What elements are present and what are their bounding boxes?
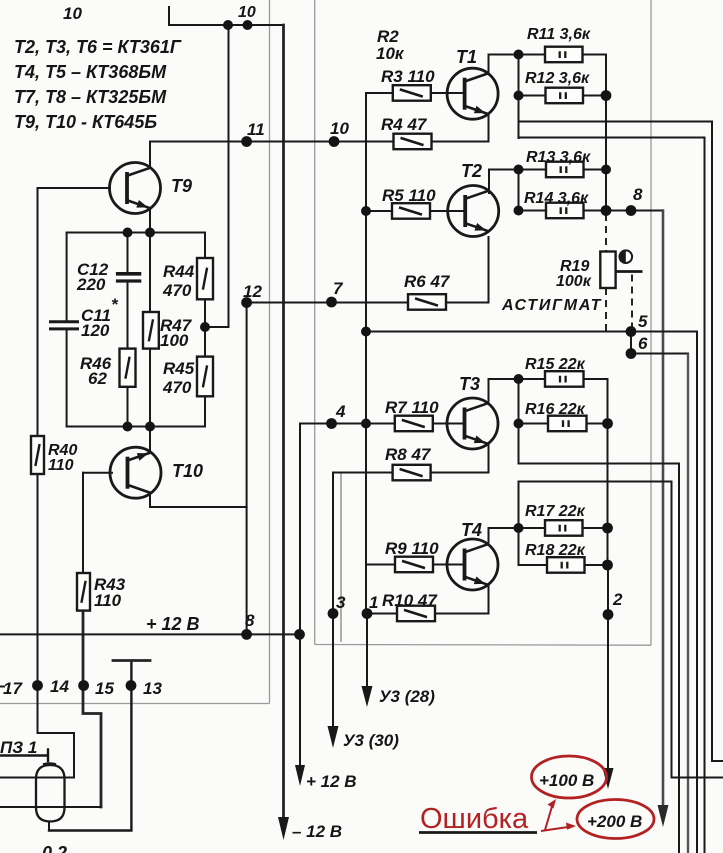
wire R13-R14 left join <box>518 170 520 211</box>
transistor T1 <box>447 68 498 119</box>
arrow +200V <box>658 805 669 827</box>
svg-text:R4 47: R4 47 <box>381 115 428 134</box>
svg-text:R45: R45 <box>163 359 195 378</box>
svg-text:1: 1 <box>369 593 378 612</box>
transistor T4 <box>447 539 498 590</box>
node 2 dot <box>603 609 614 620</box>
node 3 dot <box>328 608 339 619</box>
node 10 top dot <box>243 20 253 30</box>
junction R17 left <box>514 523 524 533</box>
junction R15 left <box>514 374 524 384</box>
wire R8 row <box>333 472 489 474</box>
wire T2 base row R5 <box>366 210 465 212</box>
junction R18 right <box>602 560 613 571</box>
wire R8 corner to node3 / UZ30 <box>332 473 334 728</box>
node 8 dot <box>626 205 637 216</box>
resistor R12 <box>546 88 584 104</box>
svg-text:12: 12 <box>243 282 262 301</box>
junction R12 left <box>514 91 524 101</box>
wire R16 row <box>519 423 608 425</box>
wire R17-R18 left join <box>518 482 520 566</box>
wire R47 column <box>149 233 151 427</box>
resistor R46 <box>120 349 136 387</box>
junction R14 right <box>601 205 612 216</box>
wire column node12 to rail <box>246 303 248 634</box>
resistor R7 <box>395 416 433 432</box>
node 4 dot <box>326 418 337 429</box>
resistor R44 <box>197 258 213 299</box>
wire output bus B <box>519 138 705 853</box>
svg-text:17: 17 <box>3 679 23 698</box>
svg-text:120: 120 <box>81 321 110 340</box>
svg-text:R9 110: R9 110 <box>385 539 439 558</box>
svg-text:ПЗ 1: ПЗ 1 <box>0 738 37 757</box>
partial plus mark before 17 <box>0 686 4 688</box>
junction rail-R47 <box>145 228 155 238</box>
node 14 dot <box>78 680 89 691</box>
svg-text:Т3: Т3 <box>459 374 480 394</box>
resistor R45 <box>197 357 213 397</box>
svg-text:15: 15 <box>95 679 114 698</box>
wire R13 row <box>489 169 606 171</box>
svg-text:110: 110 <box>94 591 122 610</box>
node 10 dot <box>329 136 340 147</box>
svg-text:10: 10 <box>63 4 82 23</box>
transistor T2 <box>448 186 499 237</box>
resistor R15 <box>545 371 584 387</box>
resistor R13 <box>546 162 584 178</box>
wire C12 R46 column <box>127 233 129 427</box>
svg-text:R5 110: R5 110 <box>382 186 436 205</box>
wire left block top rail <box>67 232 205 234</box>
wire node 5 line <box>366 331 697 333</box>
wire node 7 line <box>247 302 488 304</box>
svg-text:5: 5 <box>638 312 648 331</box>
resistor R40 <box>31 436 44 474</box>
junction R12 right <box>601 90 612 101</box>
resistor R3 <box>393 85 431 101</box>
wire node17 jog <box>38 733 75 778</box>
svg-text:Т2, Т3, Т6 = КТ361Г: Т2, Т3, Т6 = КТ361Г <box>14 37 182 57</box>
wire T2 collector riser <box>488 170 490 194</box>
frame of middle block right edge <box>650 0 652 645</box>
wire R3 feed vertical <box>365 93 367 614</box>
node 7 dot <box>326 297 337 308</box>
wire R18 row <box>519 564 608 566</box>
wire node 4 line / T3 base row <box>300 423 465 425</box>
underline of Oshibka <box>419 831 537 834</box>
svg-text:R6 47: R6 47 <box>404 272 451 291</box>
wire +12V branch vertical <box>299 424 301 767</box>
resistor R16 <box>548 416 587 432</box>
svg-text:8: 8 <box>245 611 255 630</box>
quartz crystal PZ capsule <box>36 764 65 822</box>
svg-text:6: 6 <box>638 334 648 353</box>
junction R44-R45 <box>200 322 210 332</box>
arrow +12V <box>295 765 305 786</box>
wire R11-R12 left join <box>518 55 520 139</box>
resistor R11 <box>545 47 583 63</box>
resistor R43 <box>77 573 90 611</box>
resistor R5 <box>392 203 430 219</box>
svg-text:100к: 100к <box>556 273 592 290</box>
red ellipse around +200V <box>577 800 654 839</box>
svg-text:3: 3 <box>336 593 346 612</box>
arrow UZ28 <box>362 686 373 707</box>
svg-text:0,2: 0,2 <box>42 843 67 853</box>
wire -12V bus vertical <box>282 25 285 816</box>
wire left block bottom rail <box>67 426 205 428</box>
junction R16 left <box>514 419 524 429</box>
svg-text:Т1: Т1 <box>456 47 477 67</box>
svg-text:470: 470 <box>162 378 192 397</box>
chassis bar node 13 <box>113 659 150 662</box>
wire UZ28 drop <box>366 614 368 689</box>
resistor R8 <box>393 465 431 481</box>
wire output bus A <box>519 122 723 762</box>
svg-text:R7 110: R7 110 <box>385 398 439 417</box>
junction rail-C12 <box>123 228 133 238</box>
resistor R4 <box>394 134 432 150</box>
wire T9 emitter drop <box>149 208 151 233</box>
wire R15-R18 right join <box>607 379 609 565</box>
wire R14 row / node 8 line <box>519 210 664 212</box>
svg-text:Т7, Т8 – КТ325БМ: Т7, Т8 – КТ325БМ <box>14 87 167 107</box>
wire T10 emitter riser <box>149 427 151 453</box>
scan table border bottom left <box>0 703 270 705</box>
node 6 dot <box>626 348 637 359</box>
svg-text:R18 22к: R18 22к <box>525 542 586 559</box>
svg-text:+ 12 В: + 12 В <box>306 772 357 791</box>
wire R43 column lower thick <box>83 611 101 807</box>
wire R11-R14 right join <box>605 55 607 211</box>
junction R16 right <box>602 418 613 429</box>
capacitor C11 <box>49 322 79 329</box>
node 12 dot <box>241 297 252 308</box>
potentiometer R19 <box>600 214 642 332</box>
wire T4 collector riser <box>488 528 490 545</box>
wire T4 collector to R17 <box>489 527 519 529</box>
wire T1 collector to R11 <box>489 54 519 56</box>
resistor R47 <box>143 312 159 349</box>
wire node2 vertical <box>607 565 609 770</box>
svg-text:Т4: Т4 <box>461 520 482 540</box>
svg-text:R10 47: R10 47 <box>382 591 438 610</box>
svg-text:62: 62 <box>88 369 107 388</box>
junction node4 right <box>361 419 371 429</box>
wire T1 collector riser <box>488 55 490 74</box>
adjuster symbol of R19 <box>620 250 633 263</box>
svg-text:У3 (30): У3 (30) <box>343 731 399 750</box>
transistor T10 arrow on upper emitter <box>110 447 161 498</box>
junction rail node 8 <box>241 629 252 640</box>
transistor T3 <box>447 398 498 449</box>
resistor R14 <box>546 203 584 219</box>
wire node10 branch down to R47 node <box>205 25 229 327</box>
wire R10 row node1 <box>367 613 489 615</box>
resistor R18 <box>547 557 585 573</box>
junction R13 right <box>601 165 611 175</box>
junction bottomrail-R47 <box>145 422 155 432</box>
svg-text:8: 8 <box>633 185 643 204</box>
wire output loop C <box>519 464 680 853</box>
svg-text:Т9, Т10 - КТ645Б: Т9, Т10 - КТ645Б <box>14 112 157 132</box>
svg-text:R11 3,6к: R11 3,6к <box>527 26 591 43</box>
junction node5 left <box>361 327 371 337</box>
svg-text:220: 220 <box>76 275 106 294</box>
svg-text:10: 10 <box>330 119 349 138</box>
wire T2 emitter drop <box>488 237 490 303</box>
svg-text:+200 В: +200 В <box>587 812 642 831</box>
svg-text:7: 7 <box>333 279 344 298</box>
wire node5-node6 link <box>630 332 632 354</box>
svg-text:470: 470 <box>162 281 192 300</box>
junction T2 base <box>361 206 371 216</box>
resistor R10 <box>397 606 435 622</box>
svg-text:+ 12 В: + 12 В <box>146 614 200 634</box>
wire node13 loop <box>49 661 131 831</box>
svg-text:R16 22к: R16 22к <box>525 401 586 418</box>
node 13 dot <box>126 680 137 691</box>
wire R40 column <box>37 188 39 733</box>
wire T3 emitter drop <box>488 444 490 473</box>
wire T4 emitter drop <box>488 585 490 614</box>
wire R12 row <box>519 95 607 97</box>
red arrow to +100V <box>545 799 556 830</box>
wire node 11 line <box>150 141 488 143</box>
thin inner frame line <box>340 473 342 642</box>
node 1 dot <box>362 608 373 619</box>
wire node5 bus drop <box>696 332 698 853</box>
wire T9 base left <box>38 187 111 189</box>
wire R15 row <box>489 378 608 380</box>
svg-text:11: 11 <box>247 120 265 139</box>
junction R17 right <box>602 523 613 534</box>
wire crystal bottom stem <box>48 822 50 831</box>
arrow -12V <box>278 817 289 840</box>
svg-text:R15 22к: R15 22к <box>525 356 586 373</box>
wire +12V rail <box>0 633 300 635</box>
junction rail +12V branch <box>294 629 305 640</box>
wire T4 base row R9 <box>366 564 465 566</box>
wire node6 bus drop <box>687 354 689 853</box>
wire left block left edge upper <box>66 233 68 321</box>
frame of middle block left edge <box>314 0 316 645</box>
wire output loop D <box>519 482 723 778</box>
wire R17 row <box>519 527 608 529</box>
resistor R17 <box>545 520 583 536</box>
svg-text:АСТИГМАТ: АСТИГМАТ <box>501 297 602 314</box>
wire T1 base row R3 <box>366 92 465 94</box>
transistor T9 <box>110 163 161 214</box>
svg-text:110: 110 <box>48 457 74 474</box>
wire left block left edge lower <box>66 331 68 427</box>
wire R15-R16 left join <box>518 379 520 464</box>
svg-text:У3 (28): У3 (28) <box>379 687 435 706</box>
svg-text:2: 2 <box>612 590 623 609</box>
svg-text:10к: 10к <box>376 44 405 63</box>
red ellipse around +100V <box>532 756 607 798</box>
svg-text:R14 3,6к: R14 3,6к <box>524 190 589 207</box>
wire crystal bottom plate row <box>0 806 101 808</box>
svg-text:– 12 В: – 12 В <box>292 822 342 841</box>
junction R14 left <box>514 206 524 216</box>
svg-text:+100 В: +100 В <box>539 771 594 790</box>
wire top feed node 10 <box>169 7 284 25</box>
wire T10 base <box>83 472 112 474</box>
svg-text:Т2: Т2 <box>461 161 482 181</box>
arrow UZ30 <box>328 726 339 748</box>
scan table border vertical left <box>269 0 271 704</box>
node 17 dot <box>32 680 43 691</box>
wire node 6 line <box>631 353 688 355</box>
junction R13 left <box>514 165 524 175</box>
frame of middle block bottom edge <box>315 644 651 647</box>
node 5 dot <box>626 326 637 337</box>
wire T1 emitter drop <box>488 114 490 142</box>
svg-text:13: 13 <box>143 679 162 698</box>
resistor R9 <box>395 557 433 573</box>
svg-text:Ошибка: Ошибка <box>420 803 529 835</box>
junction T1 collector R11 <box>514 50 524 60</box>
wire R44 R45 column <box>204 233 206 427</box>
svg-text:R44: R44 <box>163 262 195 281</box>
svg-text:R13 3,6к: R13 3,6к <box>526 149 591 166</box>
capacitor C12 <box>116 274 141 281</box>
junction bottomrail-C12 <box>123 422 133 432</box>
svg-text:Т4, Т5 – КТ368БМ: Т4, Т5 – КТ368БМ <box>14 62 167 82</box>
svg-text:R3 110: R3 110 <box>381 67 435 86</box>
svg-text:Т10: Т10 <box>172 461 203 481</box>
red arrow to +200V <box>541 823 576 832</box>
wire R11 row <box>519 54 607 56</box>
arrow +100V <box>603 768 614 789</box>
wire PZ1 terminal <box>0 750 48 762</box>
svg-text:R17 22к: R17 22к <box>525 503 586 520</box>
wire T9 collector riser <box>149 142 151 169</box>
resistor R6 <box>408 294 446 310</box>
svg-text:4: 4 <box>335 402 346 421</box>
svg-text:R8 47: R8 47 <box>385 445 432 464</box>
wire crystal top plate row <box>0 777 74 779</box>
svg-text:Т9: Т9 <box>171 176 192 196</box>
svg-text:10: 10 <box>238 4 256 21</box>
node 11 dot <box>241 136 252 147</box>
node dot top a <box>223 20 233 30</box>
wire T3 collector riser <box>488 379 490 404</box>
wire T10 collector to node12 column <box>150 493 247 508</box>
svg-text:100: 100 <box>160 331 189 350</box>
svg-text:14: 14 <box>50 677 69 696</box>
wire +200V drop <box>662 211 665 807</box>
wire R43 column upper <box>82 473 84 573</box>
svg-text:R12 3,6к: R12 3,6к <box>525 70 590 87</box>
